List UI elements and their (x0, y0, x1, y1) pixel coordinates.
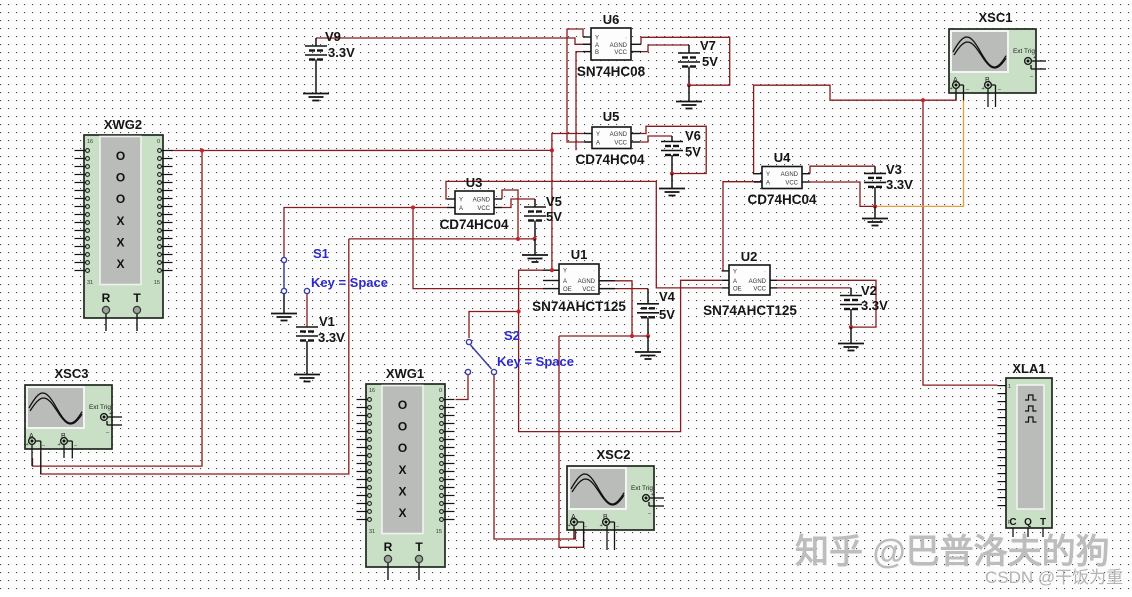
label V3 (886, 162, 913, 192)
svg-text:3.3V: 3.3V (318, 330, 345, 345)
svg-text:S2: S2 (504, 328, 520, 343)
wire gnd rail down to XSC3.A- (41, 239, 349, 474)
label V7 (700, 38, 718, 69)
ground V9 (303, 94, 329, 101)
switch S1 (281, 257, 309, 293)
battery V7 (678, 45, 700, 85)
word generator XWG1 (357, 366, 455, 580)
svg-text:C: C (1009, 517, 1016, 528)
svg-text:XSC3: XSC3 (55, 366, 89, 381)
svg-text:O: O (116, 171, 125, 185)
svg-text:3.3V: 3.3V (861, 298, 888, 313)
wire U1.Y to S2 node (519, 270, 543, 311)
junction V4- left (630, 334, 634, 338)
svg-text:Q: Q (1024, 517, 1032, 528)
svg-text:X: X (116, 214, 124, 228)
svg-text:+: + (568, 523, 571, 529)
svg-text:O: O (398, 420, 407, 434)
wire U5.AGND to V6 minus loop (640, 126, 706, 173)
svg-text:31: 31 (369, 529, 375, 535)
ground V1 (294, 375, 320, 382)
wire U6.B to node XWG2-bus (576, 52, 583, 151)
svg-text:VCC: VCC (785, 181, 798, 187)
svg-text:U6: U6 (603, 12, 620, 27)
label U1 (532, 247, 626, 314)
svg-text:+: + (58, 442, 61, 448)
wire XSC1.A- stub (960, 85, 964, 101)
wire XWG2 pin0 bus (171, 149, 552, 151)
svg-text:VCC: VCC (614, 50, 627, 56)
svg-text:U4: U4 (774, 150, 791, 165)
wire XSC1.A+ stub (955, 89, 957, 100)
svg-text:+: + (950, 86, 953, 92)
wire U4.Y to XSC1.A+ (754, 85, 956, 174)
wire U3.A to S1 pole (284, 208, 447, 258)
svg-text:S1: S1 (313, 246, 329, 261)
svg-text:A: A (733, 279, 737, 285)
label S1 (311, 246, 388, 290)
battery V4 (637, 289, 659, 336)
svg-text:V5: V5 (546, 194, 562, 209)
wire U5.VCC to V6 plus (640, 136, 672, 142)
op U4 CD74HC04 (753, 167, 810, 189)
junction V4- right (646, 334, 650, 338)
svg-text:AGND: AGND (781, 172, 799, 178)
svg-text:XSC2: XSC2 (597, 447, 631, 462)
svg-text:X: X (398, 484, 406, 498)
junction U5.Y bus (550, 148, 554, 152)
svg-text:SN74AHCT125: SN74AHCT125 (703, 303, 797, 318)
word generator XWG2 (75, 117, 173, 331)
svg-text:0: 0 (157, 139, 160, 145)
wire U6.AGND to V7 minus loop (641, 37, 730, 85)
svg-text:V9: V9 (325, 29, 341, 44)
svg-text:3.3V: 3.3V (328, 45, 355, 60)
svg-text:31: 31 (87, 280, 93, 286)
svg-text:16: 16 (87, 139, 93, 145)
wire bus down to U1.Y (551, 150, 553, 270)
junction V3- (873, 204, 877, 208)
battery V2 (840, 288, 862, 327)
svg-text:CSDN @干饭为重: CSDN @干饭为重 (985, 568, 1123, 587)
svg-text:X: X (116, 257, 124, 271)
wire S2 left throw to XWG1 pin0 (456, 375, 469, 400)
svg-text:A: A (766, 181, 770, 187)
svg-text:SN74AHCT125: SN74AHCT125 (532, 299, 626, 314)
wire U5.Y to bus junction (552, 134, 584, 151)
svg-text:+: + (600, 523, 603, 529)
wire XWG2 bus down to XSC3.A+ (33, 151, 203, 467)
svg-text:V7: V7 (700, 38, 716, 53)
junction XWG2 bus (200, 148, 204, 152)
svg-text:VCC: VCC (753, 286, 766, 292)
svg-text:O: O (116, 192, 125, 206)
junction V6- (670, 171, 674, 175)
wire S1 throw to V1 (306, 294, 308, 327)
svg-text:+: + (982, 86, 985, 92)
svg-text:A: A (563, 279, 567, 285)
wire XSC3.B stubs (64, 441, 72, 458)
junction V5- right (532, 237, 536, 241)
svg-text:Y: Y (459, 198, 463, 204)
ground V6 (659, 174, 685, 196)
svg-text:VCC: VCC (477, 206, 490, 212)
junction V7- (687, 83, 691, 87)
svg-text:15: 15 (436, 529, 442, 535)
svg-text:Ext Trig: Ext Trig (631, 485, 653, 492)
label V9 (325, 29, 355, 60)
label U6 (577, 12, 646, 79)
svg-text:5V: 5V (546, 209, 562, 224)
label V1 (318, 314, 345, 345)
wire XSC1.B stubs (988, 85, 996, 107)
svg-text:V1: V1 (319, 314, 335, 329)
svg-text:R: R (384, 540, 393, 554)
wire U2.AGND to V2 minus (777, 280, 876, 327)
svg-text:OE: OE (733, 286, 742, 292)
op U2 SN74AHCT125 (722, 265, 777, 295)
wire XLA1 tap (923, 100, 998, 385)
battery V9 (305, 38, 327, 93)
svg-text:T: T (1040, 517, 1046, 528)
svg-text:T: T (415, 540, 423, 554)
label V2 (861, 283, 888, 313)
wire XSC2.A- stub (578, 522, 584, 547)
svg-text:1: 1 (1008, 384, 1011, 390)
svg-text:Y: Y (596, 132, 600, 138)
wire XSC3.A+ stub (31, 445, 33, 466)
svg-text:0: 0 (439, 388, 442, 394)
svg-text:15: 15 (154, 280, 160, 286)
wire S1 to ground (283, 294, 285, 313)
svg-text:5V: 5V (685, 144, 701, 159)
svg-text:Key = Space: Key = Space (311, 275, 388, 290)
svg-text:XWG1: XWG1 (386, 366, 424, 381)
svg-text:+: + (109, 411, 112, 417)
wire V5 minus rail (349, 238, 535, 240)
svg-text:3.3V: 3.3V (886, 177, 913, 192)
wire U6.Y to U5.A (567, 29, 592, 142)
wire V9 to U6.A (316, 38, 591, 44)
svg-text:XWG2: XWG2 (104, 117, 142, 132)
svg-text:·: · (625, 36, 627, 42)
junction U1.Y bus (550, 268, 554, 272)
svg-text:AGND: AGND (578, 279, 596, 285)
wire U4.VCC to V3 minus (810, 182, 875, 206)
ground V7 (676, 85, 702, 108)
wire U2.Y to U4.A (722, 182, 762, 271)
wire U1.AGND to V4 minus (599, 281, 632, 336)
wire XSC2.A+ stub (573, 526, 575, 539)
svg-text:+: + (1033, 55, 1036, 61)
junction V2- (849, 325, 853, 329)
svg-text:U2: U2 (741, 249, 758, 264)
svg-text:AGND: AGND (749, 279, 767, 285)
wire S2 node to pole (469, 312, 519, 339)
battery V1 (296, 327, 318, 374)
wire U2.VCC to V2 plus (777, 287, 851, 289)
watermark zhihu (795, 533, 1110, 571)
logic analyzer XLA1 (998, 361, 1053, 537)
label U4 (747, 150, 817, 207)
wire U6.VCC to V7 plus (641, 45, 689, 52)
wire S2 right throw to XSC2.A+ (494, 375, 576, 539)
label V4 (659, 289, 676, 322)
ground V3 (862, 206, 888, 225)
svg-text:Y: Y (595, 36, 599, 42)
svg-text:OE: OE (563, 287, 572, 293)
wire U3.VCC to V5 plus (502, 199, 535, 208)
svg-text:O: O (398, 441, 407, 455)
label U3 (439, 175, 509, 232)
wire V4 minus rail to XSC2.A- (559, 335, 648, 337)
junction V5- left (516, 237, 520, 241)
svg-text:Y: Y (563, 269, 567, 275)
switch S2 (465, 339, 496, 374)
battery V3 (864, 166, 886, 206)
svg-text:A: A (459, 206, 463, 212)
op U3 CD74HC04 (447, 191, 502, 214)
svg-text:+: + (26, 442, 29, 448)
svg-text:SN74HC08: SN74HC08 (577, 64, 646, 79)
wire U3.AGND to V5 minus (502, 190, 518, 239)
wire XSC3.A- stub (36, 441, 41, 474)
svg-text:A: A (596, 141, 600, 147)
svg-text:VCC: VCC (582, 287, 595, 293)
oscilloscope XSC1 (949, 10, 1046, 93)
oscilloscope XSC2 (567, 447, 664, 530)
svg-text:X: X (398, 463, 406, 477)
svg-text:B: B (595, 50, 599, 56)
svg-text:V4: V4 (659, 289, 676, 304)
svg-text:知乎 @巴普洛夫的狗: 知乎 @巴普洛夫的狗 (795, 533, 1110, 571)
wire V4 rail down (559, 336, 584, 547)
svg-text:VCC: VCC (614, 141, 627, 147)
svg-text:Y: Y (766, 172, 770, 178)
svg-text:AGND: AGND (610, 43, 628, 49)
svg-text:X: X (116, 235, 124, 249)
svg-text:U1: U1 (571, 247, 588, 262)
svg-text:V6: V6 (685, 128, 701, 143)
label U2 (703, 249, 797, 318)
svg-text:A: A (595, 43, 599, 49)
wire U4.AGND to V3 plus (810, 166, 875, 174)
label V6 (685, 128, 701, 159)
label V5 (546, 194, 562, 224)
svg-text:AGND: AGND (610, 132, 628, 138)
svg-text:5V: 5V (702, 54, 718, 69)
junction U3.A node (411, 205, 415, 209)
ground V5 (522, 239, 548, 262)
svg-text:O: O (398, 398, 407, 412)
svg-text:U3: U3 (466, 175, 483, 190)
ground V2 (838, 327, 864, 350)
svg-text:CD74HC04: CD74HC04 (575, 152, 645, 167)
oscilloscope XSC3 (25, 366, 122, 449)
svg-text:X: X (398, 506, 406, 520)
svg-text:T: T (133, 291, 141, 305)
svg-text:16: 16 (369, 388, 375, 394)
op U5 CD74HC04 (584, 127, 640, 149)
svg-text:+: + (651, 492, 654, 498)
svg-text:O: O (116, 149, 125, 163)
svg-text:XSC1: XSC1 (979, 10, 1013, 25)
svg-text:5V: 5V (659, 307, 675, 322)
junction XLA1 tap (921, 98, 925, 102)
svg-text:CD74HC04: CD74HC04 (747, 192, 817, 207)
svg-text:Key = Space: Key = Space (497, 354, 574, 369)
svg-text:AGND: AGND (473, 198, 491, 204)
svg-text:XLA1: XLA1 (1012, 361, 1045, 376)
ground S1 (271, 314, 297, 321)
svg-text:R: R (102, 291, 111, 305)
op U1 SN74AHCT125 (543, 264, 615, 294)
watermark csdn (985, 568, 1123, 587)
wire U3.Y to U2.OE (446, 181, 722, 288)
wire U3.A down to U1.OE (413, 208, 543, 289)
svg-text:Ext Trig: Ext Trig (89, 404, 111, 411)
battery V5 (524, 199, 546, 239)
svg-text:·: · (764, 269, 766, 275)
svg-text:U5: U5 (603, 109, 620, 124)
svg-text:V2: V2 (861, 283, 877, 298)
wire XSC2.B stubs (607, 522, 615, 550)
battery V6 (661, 136, 683, 174)
label S2 (497, 328, 574, 369)
svg-text:Y: Y (733, 269, 737, 275)
svg-text:CD74HC04: CD74HC04 (439, 217, 509, 232)
wire U1.VCC to V4 plus (599, 288, 648, 290)
junction S2 node (517, 309, 521, 313)
wire orange XSC1.A- to V3 minus (875, 101, 964, 207)
wire V7 junction to loop (689, 84, 730, 86)
op U6 SN74HC08 (583, 28, 641, 60)
svg-text:V3: V3 (886, 162, 902, 177)
wire S2 node down to U2.A (519, 280, 722, 431)
ground V4 (635, 336, 661, 359)
svg-text:Ext Trig: Ext Trig (1013, 48, 1035, 55)
svg-text:·: · (593, 269, 595, 275)
label U5 (575, 109, 645, 167)
